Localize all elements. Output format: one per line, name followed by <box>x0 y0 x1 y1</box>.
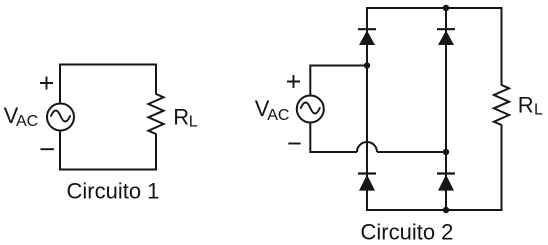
wire: circuit1 left lower segment <box>59 131 61 171</box>
AC source V1 (circuit 1) <box>47 104 74 131</box>
svg-text:AC: AC <box>267 107 289 124</box>
svg-text:Circuito 1: Circuito 1 <box>67 179 160 204</box>
svg-text:Circuito 2: Circuito 2 <box>361 219 454 244</box>
AC source V2 (circuit 2) <box>297 96 324 123</box>
resistor RL (circuit 1) <box>148 94 163 134</box>
wire: circuit1 top <box>59 64 157 66</box>
junction dot: rail2 bottom <box>443 207 449 213</box>
wire: circuit2 right rail upper <box>501 7 503 85</box>
diode D4 (bottom, rail2) <box>437 174 455 191</box>
wire: rail2 vertical <box>445 7 447 211</box>
resistor RL (circuit 2) <box>494 85 509 125</box>
wire: circuit2 top bus <box>366 7 502 9</box>
wire: circuit1 right lower segment <box>155 134 157 171</box>
svg-text:R: R <box>173 104 189 129</box>
junction dot: rail2 mid <box>443 149 449 155</box>
svg-text:L: L <box>189 114 198 131</box>
wire: circuit2 bottom bus <box>366 209 502 211</box>
polarity plus (circuit 1) <box>40 77 53 90</box>
label RL (circuit 2) <box>518 92 543 118</box>
wire: circuit1 left upper segment <box>59 65 61 104</box>
label VAC (circuit 1) <box>4 103 39 130</box>
svg-text:L: L <box>534 102 543 119</box>
junction dot: rail2 top <box>443 5 449 11</box>
polarity minus (circuit 1) <box>41 148 55 150</box>
junction dot: rail1 / source plus <box>364 62 370 68</box>
wire: circuit2 source bottom lead <box>310 122 357 152</box>
polarity minus (circuit 2) <box>288 143 300 145</box>
label RL (circuit 1) <box>173 104 198 130</box>
wire: circuit1 bottom <box>59 169 157 171</box>
polarity plus (circuit 2) <box>287 75 300 88</box>
diode D3 (bottom, rail1) <box>358 174 376 191</box>
wire: circuit2 source top lead <box>310 66 367 96</box>
diode D1 (top, rail1) <box>358 29 376 45</box>
wire: crossover hop over rail1 <box>357 142 377 152</box>
wire: circuit1 right upper segment <box>155 64 157 95</box>
wire: hop to rail2 <box>377 151 446 153</box>
svg-text:AC: AC <box>16 113 38 130</box>
diode D2 (top, rail2) <box>437 29 455 45</box>
svg-text:R: R <box>518 92 534 117</box>
label VAC (circuit 2) <box>255 96 290 124</box>
wire: circuit2 right rail lower <box>501 125 503 211</box>
wire: rail1 vertical <box>366 7 368 211</box>
